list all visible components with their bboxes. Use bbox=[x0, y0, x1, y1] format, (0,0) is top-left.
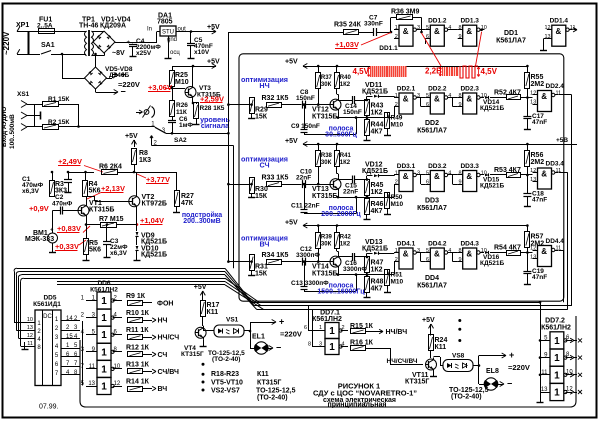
DD7.2 left wire bbox=[540, 340, 542, 400]
svg-text:4: 4 bbox=[448, 170, 451, 176]
gate DD4.1 bbox=[399, 248, 413, 269]
svg-text:&: & bbox=[466, 172, 472, 181]
svg-text:(ТО-2-40): (ТО-2-40) bbox=[212, 356, 240, 363]
svg-text:47nF: 47nF bbox=[532, 119, 547, 126]
svg-text:200..2000Гц: 200..2000Гц bbox=[321, 211, 361, 218]
svg-text:STU: STU bbox=[162, 30, 174, 36]
svg-text:К561ИД1: К561ИД1 bbox=[33, 301, 61, 308]
gate DD3.1 bbox=[399, 171, 413, 192]
resistor R26 11K bbox=[172, 88, 174, 101]
svg-text:R41: R41 bbox=[340, 153, 352, 159]
svg-text:осц: осц bbox=[170, 50, 180, 56]
svg-text:&: & bbox=[403, 95, 409, 104]
svg-text:~220V: ~220V bbox=[2, 31, 11, 55]
svg-text:DC: DC bbox=[43, 314, 52, 320]
svg-text:R10 1К: R10 1К bbox=[126, 310, 150, 317]
svg-text:7805: 7805 bbox=[157, 19, 173, 26]
svg-text:R39: R39 bbox=[321, 235, 333, 241]
svg-text:22nF: 22nF bbox=[343, 189, 358, 196]
svg-text:1: 1 bbox=[554, 388, 560, 399]
svg-text:+5V: +5V bbox=[285, 220, 298, 227]
svg-text:К561ЛА7: К561ЛА7 bbox=[496, 38, 526, 45]
gate DD1.4 bbox=[552, 25, 566, 46]
svg-text:+5V: +5V bbox=[207, 24, 220, 31]
svg-text:=220V: =220V bbox=[118, 80, 140, 89]
svg-text:1: 1 bbox=[554, 370, 560, 381]
svg-text:3300пФ: 3300пФ bbox=[343, 266, 367, 273]
capacitor C17 47nF bbox=[527, 107, 529, 117]
transistor VT1 КТ315Б bbox=[78, 205, 89, 216]
svg-text:НЧ/СЧ: НЧ/СЧ bbox=[158, 335, 180, 342]
svg-text:+: + bbox=[127, 40, 131, 46]
bus wires left horizontal bbox=[17, 268, 225, 270]
svg-text:6: 6 bbox=[426, 179, 429, 185]
svg-text:1К3: 1К3 bbox=[139, 157, 151, 164]
bottom section box bbox=[80, 316, 576, 407]
svg-text:1: 1 bbox=[329, 342, 335, 353]
svg-text:DD4.3: DD4.3 bbox=[460, 241, 479, 248]
svg-text:1: 1 bbox=[101, 330, 107, 341]
svg-text:+0,9V: +0,9V bbox=[29, 204, 49, 213]
svg-text:x6,3V: x6,3V bbox=[22, 188, 40, 195]
svg-text:6: 6 bbox=[304, 325, 307, 331]
svg-text:1К2: 1К2 bbox=[340, 242, 351, 248]
svg-text:ВЧ: ВЧ bbox=[158, 386, 168, 393]
svg-text:9: 9 bbox=[458, 102, 461, 108]
resistor R3 3K3 bbox=[50, 181, 55, 197]
svg-text:C9 150nF: C9 150nF bbox=[291, 123, 320, 130]
transistor VT12 КТ315Б bbox=[330, 99, 341, 110]
svg-text:R27: R27 bbox=[181, 193, 194, 200]
svg-text:SA2: SA2 bbox=[174, 137, 187, 144]
svg-text:КД521Б: КД521Б bbox=[480, 183, 504, 190]
svg-text:DD4.2: DD4.2 bbox=[428, 241, 447, 248]
svg-text:КТ315Б: КТ315Б bbox=[312, 193, 337, 200]
svg-text:DD4.1: DD4.1 bbox=[397, 241, 416, 248]
svg-text:14: 14 bbox=[66, 316, 73, 322]
resistor R44 4К7 bbox=[366, 116, 368, 120]
resistor R51 M10 bbox=[385, 270, 390, 286]
svg-text:1: 1 bbox=[395, 170, 398, 176]
gate DD2.2 bbox=[430, 93, 444, 114]
svg-text:R46: R46 bbox=[371, 201, 384, 208]
svg-text:+5V: +5V bbox=[422, 317, 435, 324]
svg-text:DD1.2: DD1.2 bbox=[428, 18, 447, 25]
svg-text:(ТО-2-40): (ТО-2-40) bbox=[257, 395, 288, 402]
svg-text:9: 9 bbox=[458, 34, 461, 40]
svg-text:НЧ: НЧ bbox=[259, 81, 269, 90]
svg-text:КТ315Г: КТ315Г bbox=[181, 351, 204, 358]
svg-text:11: 11 bbox=[556, 90, 562, 96]
svg-text:R24: R24 bbox=[435, 337, 448, 344]
svg-text:К11: К11 bbox=[257, 371, 269, 378]
svg-text:1: 1 bbox=[101, 382, 107, 393]
red waveform dense block bbox=[370, 66, 407, 77]
svg-text:К561ЛА7: К561ЛА7 bbox=[417, 128, 447, 135]
svg-text:5К6: 5К6 bbox=[89, 247, 101, 254]
note dots right bbox=[458, 319, 461, 322]
resistor R43 1К2 bbox=[365, 100, 370, 116]
svg-text:4: 4 bbox=[448, 25, 451, 31]
svg-text:1: 1 bbox=[319, 325, 322, 331]
diode VD15 КД521Б bbox=[480, 174, 485, 176]
svg-text:ВЧ: ВЧ bbox=[260, 240, 270, 249]
resistor R25 M10 bbox=[172, 66, 174, 70]
DD5 input pins bbox=[14, 322, 35, 324]
transistor VT13 КТ315Б bbox=[330, 179, 341, 190]
svg-text:1К2: 1К2 bbox=[371, 189, 383, 196]
svg-text:6: 6 bbox=[426, 34, 429, 40]
svg-text:2: 2 bbox=[395, 102, 398, 108]
svg-text:КД209А: КД209А bbox=[100, 23, 126, 30]
emitter cap C11 22nF bbox=[338, 191, 340, 197]
output =220V +/- bbox=[107, 78, 113, 80]
svg-text:СЧ: СЧ bbox=[259, 161, 269, 170]
svg-text:DD2: DD2 bbox=[425, 120, 439, 127]
svg-text:VT14: VT14 bbox=[312, 264, 329, 271]
svg-text:+5V: +5V bbox=[285, 138, 298, 145]
output wire DD3.4 bbox=[559, 172, 568, 174]
resistor R55 2M2 bbox=[525, 73, 530, 89]
svg-text:+5V: +5V bbox=[285, 59, 298, 66]
svg-text:R26: R26 bbox=[176, 102, 188, 109]
svg-text:ФОН: ФОН bbox=[157, 301, 173, 308]
microphone BM1 МЭК-333 bbox=[48, 233, 58, 243]
gnd DD1.4 pin13 bbox=[544, 38, 547, 40]
svg-text:КТ315Б: КТ315Б bbox=[312, 271, 337, 278]
svg-text:КТ315Б: КТ315Б bbox=[312, 114, 337, 121]
svg-text:R44: R44 bbox=[371, 122, 384, 129]
svg-text:4К7: 4К7 bbox=[371, 129, 383, 136]
svg-text:11: 11 bbox=[27, 341, 33, 347]
svg-text:4,5V: 4,5V bbox=[353, 67, 370, 76]
svg-text:R28 1К5: R28 1К5 bbox=[200, 105, 225, 112]
svg-text:&: & bbox=[434, 172, 440, 181]
svg-text:In: In bbox=[147, 27, 152, 33]
bias resistors 30K/1K2 ВЧ bbox=[303, 225, 527, 227]
svg-text:&: & bbox=[403, 250, 409, 259]
svg-text:КТ315Б: КТ315Б bbox=[89, 207, 114, 214]
svg-text:SA1: SA1 bbox=[41, 42, 55, 49]
svg-text:30К: 30К bbox=[321, 160, 332, 166]
svg-text:+1,04V: +1,04V bbox=[140, 216, 164, 225]
feedback wires DD1.3 out bbox=[480, 29, 485, 31]
capacitor C6 1mF bbox=[172, 117, 174, 120]
svg-text:К561ЛН2: К561ЛН2 bbox=[541, 325, 571, 332]
bias resistors 30K/1K2 НЧ bbox=[317, 65, 320, 68]
resistor R48 4К7 bbox=[366, 273, 368, 277]
svg-text:30К: 30К bbox=[321, 242, 332, 248]
svg-text:13: 13 bbox=[530, 99, 536, 105]
svg-text:&: & bbox=[541, 170, 547, 179]
gate DD1.3 bbox=[463, 25, 477, 46]
transistor VT14 КТ315Б bbox=[330, 256, 341, 267]
svg-text:DD3.3: DD3.3 bbox=[460, 163, 479, 170]
svg-text:4К7: 4К7 bbox=[371, 286, 383, 293]
svg-text:12: 12 bbox=[27, 333, 33, 339]
svg-text:2: 2 bbox=[395, 34, 398, 40]
svg-text:10: 10 bbox=[27, 317, 33, 323]
transistor VT4 КТ315Г bbox=[195, 327, 206, 338]
svg-text:R50: R50 bbox=[391, 194, 403, 201]
emitter cap C9 150nF bbox=[338, 112, 340, 118]
svg-text:2: 2 bbox=[342, 325, 345, 331]
transistor VT3 КТ315Б bbox=[172, 86, 174, 88]
svg-text:DD7.2: DD7.2 bbox=[545, 318, 565, 325]
svg-text:VT12: VT12 bbox=[312, 107, 329, 114]
svg-text:R37: R37 bbox=[321, 75, 333, 81]
svg-text:R47: R47 bbox=[371, 260, 384, 267]
svg-text:+2,49V: +2,49V bbox=[58, 157, 82, 166]
svg-text:&: & bbox=[434, 95, 440, 104]
svg-text:R14 1К: R14 1К bbox=[126, 379, 150, 386]
svg-text:R51: R51 bbox=[391, 272, 403, 279]
svg-text:+0,33V: +0,33V bbox=[55, 242, 79, 251]
svg-text:−: − bbox=[276, 343, 281, 353]
svg-text:DD1.3: DD1.3 bbox=[460, 18, 479, 25]
svg-text:8: 8 bbox=[458, 93, 461, 99]
signal bus vertical bbox=[228, 32, 230, 261]
VS1 wiring bbox=[203, 328, 205, 331]
svg-text:НЧ/ВЧ: НЧ/ВЧ bbox=[386, 329, 408, 336]
svg-text:13: 13 bbox=[541, 387, 548, 393]
svg-text:11: 11 bbox=[541, 370, 548, 376]
svg-text:DD3.2: DD3.2 bbox=[428, 163, 447, 170]
+5V rail to preamp bbox=[186, 66, 216, 68]
resistor R24 K11 bbox=[430, 324, 432, 331]
svg-text:+: + bbox=[121, 70, 126, 80]
svg-text:+3,06V: +3,06V bbox=[148, 83, 172, 92]
svg-text:Вход АУДИО: Вход АУДИО bbox=[1, 107, 8, 147]
svg-text:x10V: x10V bbox=[194, 49, 210, 56]
svg-text:1К2: 1К2 bbox=[340, 160, 351, 166]
svg-text:КД521Б: КД521Б bbox=[362, 168, 388, 175]
svg-text:DD1: DD1 bbox=[504, 30, 518, 37]
svg-text:КД521Б: КД521Б bbox=[480, 105, 504, 112]
svg-text:2: 2 bbox=[395, 257, 398, 263]
svg-text:R40: R40 bbox=[340, 75, 352, 81]
svg-text:СЧ/ВЧ: СЧ/ВЧ bbox=[158, 369, 180, 376]
svg-text:2: 2 bbox=[395, 179, 398, 185]
svg-text:R45: R45 bbox=[371, 182, 384, 189]
svg-text:К11: К11 bbox=[435, 344, 447, 351]
DD5-DD6 crossing wires bbox=[82, 321, 84, 386]
svg-text:1: 1 bbox=[395, 248, 398, 254]
svg-text:12: 12 bbox=[114, 381, 121, 387]
bias resistors 30K/1K2 СЧ bbox=[303, 144, 527, 146]
gate DD3.2 bbox=[430, 171, 444, 192]
svg-text:13: 13 bbox=[530, 254, 536, 260]
note list bbox=[202, 363, 205, 366]
diode VD16 КД521Б bbox=[480, 252, 485, 254]
svg-text:6: 6 bbox=[426, 257, 429, 263]
svg-text:DD3: DD3 bbox=[425, 198, 439, 205]
svg-text:МЭК-333: МЭК-333 bbox=[25, 236, 54, 243]
svg-text:22nF: 22nF bbox=[296, 175, 311, 182]
svg-text:&: & bbox=[541, 92, 547, 101]
svg-text:&: & bbox=[403, 27, 409, 36]
svg-text:К561ЛА7: К561ЛА7 bbox=[417, 283, 447, 290]
wire НЧ/СЧ/ВЧ to VT11 bbox=[390, 348, 392, 365]
svg-text:R18-R23: R18-R23 bbox=[211, 371, 239, 378]
svg-text:R35 24К: R35 24К bbox=[334, 22, 362, 29]
svg-text:R42: R42 bbox=[340, 235, 352, 241]
emitter cap C13 3300пФ bbox=[338, 269, 340, 275]
resistor R17 K11 bbox=[202, 291, 204, 298]
svg-text:КТ315Г: КТ315Г bbox=[257, 380, 281, 387]
resistor R29 15К bbox=[250, 103, 253, 106]
DD5 ground bbox=[24, 342, 26, 347]
diode VD14 КД521Б bbox=[480, 97, 485, 99]
svg-text:2M2: 2M2 bbox=[531, 81, 545, 88]
svg-text:9: 9 bbox=[458, 257, 461, 263]
svg-text:1К2: 1К2 bbox=[371, 110, 383, 117]
svg-text:&: & bbox=[466, 27, 472, 36]
svg-text:12: 12 bbox=[544, 25, 550, 31]
svg-text:1: 1 bbox=[395, 25, 398, 31]
svg-text:К11: К11 bbox=[207, 309, 219, 316]
gate DD4.2 bbox=[430, 248, 444, 269]
VS8 wiring bbox=[473, 365, 479, 367]
resistor R30 15К bbox=[250, 183, 253, 186]
svg-text:+5V: +5V bbox=[194, 284, 207, 291]
svg-text:3300пФ: 3300пФ bbox=[296, 252, 320, 259]
svg-text:11К: 11К bbox=[176, 109, 187, 116]
capacitor C5 bbox=[190, 30, 193, 33]
svg-text:R52 4К7: R52 4К7 bbox=[494, 90, 521, 97]
svg-text:8: 8 bbox=[458, 25, 461, 31]
svg-text:VT13: VT13 bbox=[312, 186, 329, 193]
svg-text:−: − bbox=[507, 379, 512, 389]
svg-text:КД521Б: КД521Б bbox=[480, 260, 504, 267]
gate DD2.1 bbox=[399, 93, 413, 114]
svg-text:DD4.4: DD4.4 bbox=[546, 238, 565, 245]
svg-text:12: 12 bbox=[566, 387, 573, 393]
svg-text:C11 22nF: C11 22nF bbox=[291, 203, 320, 210]
svg-text:1: 1 bbox=[101, 296, 107, 307]
svg-text:6: 6 bbox=[426, 102, 429, 108]
svg-text:R30: R30 bbox=[255, 186, 268, 193]
svg-text:1: 1 bbox=[101, 364, 107, 375]
svg-text:3: 3 bbox=[319, 342, 322, 348]
svg-text:C13 3300пФ: C13 3300пФ bbox=[291, 280, 329, 287]
svg-text:XP1: XP1 bbox=[16, 22, 29, 29]
svg-text:10: 10 bbox=[114, 364, 121, 370]
svg-text:R56: R56 bbox=[531, 152, 544, 159]
svg-text:+0,83V: +0,83V bbox=[57, 224, 81, 233]
svg-text:150nF: 150nF bbox=[343, 109, 362, 116]
capacitor C19 47nF bbox=[527, 262, 529, 272]
svg-text:+: + bbox=[509, 350, 514, 360]
input jack to SA2 bbox=[136, 112, 142, 114]
svg-text:9: 9 bbox=[458, 179, 461, 185]
svg-text:13: 13 bbox=[88, 381, 95, 387]
svg-text:DD3.4: DD3.4 bbox=[546, 161, 565, 168]
svg-text:VT5-VT10: VT5-VT10 bbox=[211, 380, 243, 387]
svg-text:4К7: 4К7 bbox=[371, 208, 383, 215]
svg-text:M10: M10 bbox=[391, 279, 404, 286]
capacitor C3 22mF bbox=[106, 225, 108, 242]
gate DD2.3 bbox=[463, 93, 477, 114]
svg-text:&: & bbox=[466, 95, 472, 104]
svg-text:R34 1К5: R34 1К5 bbox=[262, 252, 289, 259]
diode VD9 КД521Б bbox=[136, 225, 138, 232]
svg-text:=220V: =220V bbox=[280, 330, 302, 339]
svg-text:КТ972Б: КТ972Б bbox=[142, 201, 167, 208]
gate DD3.4 bbox=[538, 168, 552, 189]
svg-text:1: 1 bbox=[554, 353, 560, 364]
svg-text:+1,03V: +1,03V bbox=[335, 40, 359, 49]
svg-text:30..500Гц: 30..500Гц bbox=[325, 131, 357, 138]
svg-text:13: 13 bbox=[27, 325, 33, 331]
svg-text:13: 13 bbox=[530, 177, 536, 183]
svg-text:+5V: +5V bbox=[207, 59, 220, 66]
svg-text:1: 1 bbox=[329, 326, 335, 337]
svg-text:5: 5 bbox=[426, 248, 429, 254]
output wire DD4.4 bbox=[559, 250, 564, 252]
resistor R45 1К2 bbox=[365, 180, 370, 196]
gate DD4.4 bbox=[538, 246, 552, 267]
svg-text:R33 1К5: R33 1К5 bbox=[262, 175, 289, 182]
resistor R56 2M2 bbox=[525, 151, 530, 167]
svg-text:M10: M10 bbox=[391, 122, 404, 129]
output wire DD2.4 bbox=[559, 94, 572, 96]
gate DD2.4 bbox=[538, 91, 552, 112]
svg-text:R55: R55 bbox=[531, 74, 544, 81]
red waveform square pulses bbox=[460, 66, 478, 78]
resistor R49 M10 bbox=[385, 113, 390, 129]
svg-text:&: & bbox=[403, 172, 409, 181]
diode VD10 КД521Б bbox=[136, 236, 138, 245]
svg-text:КД521Б: КД521Б bbox=[362, 246, 388, 253]
svg-text:47nF: 47nF bbox=[532, 197, 547, 204]
svg-text:R49: R49 bbox=[391, 115, 403, 122]
svg-text:DD2.1: DD2.1 bbox=[397, 86, 416, 93]
svg-text:DD2.3: DD2.3 bbox=[460, 86, 479, 93]
capacitor C4 bbox=[115, 42, 133, 44]
svg-text:EL8: EL8 bbox=[486, 368, 499, 375]
wire join bbox=[78, 104, 80, 127]
svg-text:R7 M15: R7 M15 bbox=[99, 216, 124, 223]
cap C14 series bbox=[352, 96, 354, 104]
input stub НЧ bbox=[227, 103, 230, 106]
svg-text:сигнала: сигнала bbox=[201, 121, 230, 130]
resistor R4 5K6 bbox=[83, 181, 88, 197]
svg-text:XS1: XS1 bbox=[17, 91, 30, 98]
svg-text:DD4: DD4 bbox=[425, 275, 439, 282]
resistor R50 M10 bbox=[385, 193, 390, 209]
svg-text:+: + bbox=[50, 228, 54, 234]
svg-text:КД521Б: КД521Б bbox=[141, 239, 167, 246]
red waveform line channel 1 bbox=[303, 66, 527, 68]
transistor VT11 КТ315Г bbox=[426, 359, 437, 370]
red pointer line DD1.3 out bbox=[476, 32, 482, 66]
svg-text:+5V: +5V bbox=[125, 133, 138, 140]
svg-text:DD1.1: DD1.1 bbox=[379, 45, 398, 52]
svg-text:КТ315Г: КТ315Г bbox=[405, 379, 429, 386]
svg-text:4: 4 bbox=[342, 342, 345, 348]
svg-text:47nF: 47nF bbox=[532, 274, 547, 281]
svg-text:принципиальная: принципиальная bbox=[327, 401, 386, 408]
DD5 output pins to DD6 bbox=[61, 320, 80, 322]
filter box bottom parallel bus bbox=[254, 305, 571, 307]
bus wires lower horizontal bbox=[252, 302, 540, 304]
svg-text:R48: R48 bbox=[371, 279, 384, 286]
resistor R5 5K6 bbox=[84, 239, 89, 255]
svg-text:07.99.: 07.99. bbox=[39, 404, 59, 411]
gate DD1.1 bbox=[399, 25, 413, 46]
transistor VT2 КТ972Б bbox=[129, 196, 140, 207]
